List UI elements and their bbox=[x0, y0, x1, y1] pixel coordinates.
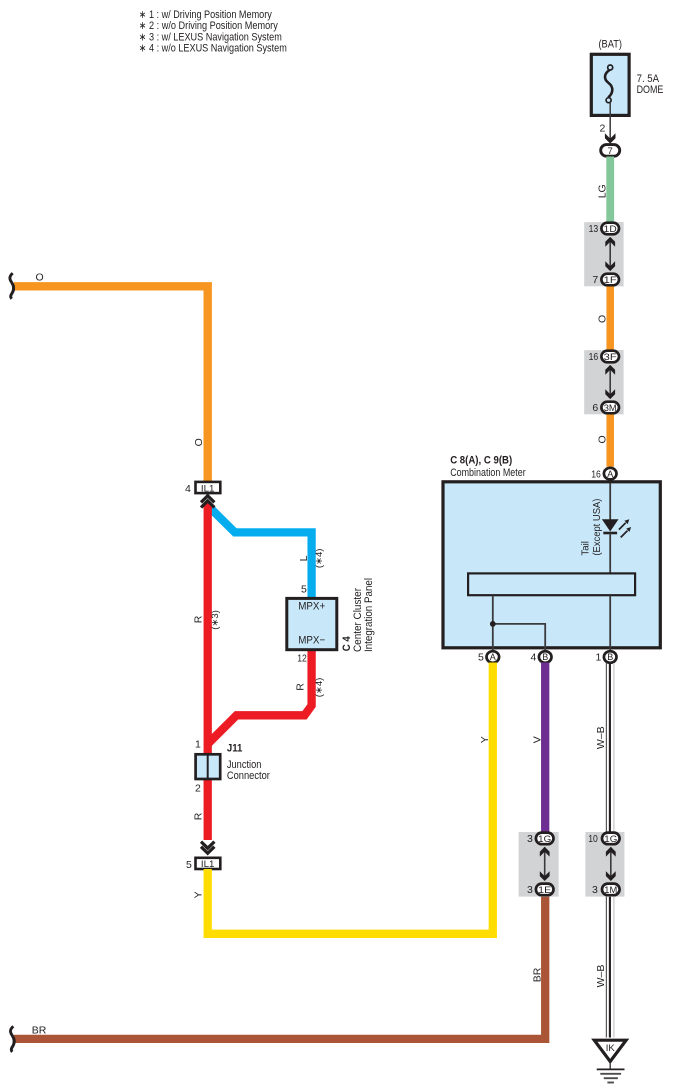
label W-B (upper) bbox=[595, 726, 607, 749]
label O bbox=[36, 271, 44, 283]
svg-text:(∗3): (∗3) bbox=[210, 610, 221, 630]
svg-text:(Except USA): (Except USA) bbox=[591, 499, 603, 556]
svg-text:13: 13 bbox=[589, 223, 599, 235]
svg-text:7: 7 bbox=[592, 274, 598, 286]
internal block bbox=[468, 573, 635, 595]
wire V bbox=[541, 663, 549, 834]
svg-text:6: 6 bbox=[592, 402, 598, 414]
wire BR bbox=[14, 897, 545, 1039]
label R bbox=[192, 615, 204, 623]
pin 3 connector 1E bbox=[527, 884, 554, 896]
internal wire right to pin 1 bbox=[609, 595, 611, 650]
svg-text:5: 5 bbox=[478, 652, 484, 664]
svg-text:Connector: Connector bbox=[227, 770, 270, 782]
svg-text:Tail: Tail bbox=[579, 541, 591, 556]
svg-text:5: 5 bbox=[186, 859, 192, 871]
label O vertical bbox=[193, 438, 205, 446]
break squiggle bottom bbox=[10, 1026, 14, 1052]
svg-text:1: 1 bbox=[596, 652, 602, 664]
svg-text:1F: 1F bbox=[604, 275, 617, 286]
svg-text:W–B: W–B bbox=[595, 726, 607, 749]
label Y (left) bbox=[192, 891, 204, 898]
svg-text:W–B: W–B bbox=[595, 965, 607, 988]
label Y (right) bbox=[479, 736, 491, 743]
svg-text:7: 7 bbox=[608, 146, 613, 157]
pin 16 connector 3F bbox=[589, 351, 619, 363]
svg-text:1E: 1E bbox=[538, 885, 551, 896]
center cluster integration panel C4 bbox=[287, 598, 337, 649]
label O bbox=[596, 435, 608, 443]
svg-text:BR: BR bbox=[32, 1024, 47, 1036]
svg-text:3M: 3M bbox=[604, 403, 617, 414]
pin 3 connector 1M bbox=[592, 884, 620, 896]
svg-text:O: O bbox=[193, 438, 205, 446]
svg-text:Combination Meter: Combination Meter bbox=[450, 467, 526, 479]
svg-text:BR: BR bbox=[532, 967, 544, 982]
svg-text:3: 3 bbox=[527, 833, 533, 845]
label V bbox=[532, 736, 544, 743]
LED tail lamp (diode) bbox=[602, 519, 631, 537]
wire LED to block bbox=[609, 533, 611, 573]
svg-text:∗ 1 : w/ Driving Position Memo: ∗ 1 : w/ Driving Position Memory bbox=[139, 9, 272, 21]
wire arrow 1D/1F bbox=[605, 237, 615, 271]
label L bbox=[298, 555, 310, 561]
label R (MPX branch) bbox=[294, 683, 306, 691]
pin 16 connector A bbox=[591, 468, 616, 481]
wire arrow 3F/3M bbox=[605, 365, 615, 399]
label O bbox=[596, 315, 608, 323]
label R lower bbox=[192, 812, 204, 820]
pin 5 connector IL1 (lower) bbox=[186, 858, 220, 871]
internal wire left to pin 5 bbox=[492, 595, 494, 650]
svg-text:IL1: IL1 bbox=[201, 483, 215, 493]
label (*4) bbox=[314, 549, 325, 569]
svg-text:Y: Y bbox=[479, 736, 491, 743]
svg-text:LG: LG bbox=[596, 184, 608, 198]
svg-text:V: V bbox=[532, 736, 544, 743]
svg-text:1G: 1G bbox=[604, 834, 617, 845]
svg-text:1G: 1G bbox=[538, 834, 551, 845]
svg-text:A: A bbox=[490, 652, 496, 662]
svg-text:R: R bbox=[192, 615, 204, 623]
ground IK bbox=[594, 1040, 626, 1061]
svg-text:16: 16 bbox=[589, 351, 599, 363]
pin 12 (MPX-) bbox=[297, 653, 307, 665]
label J11 Junction Connector bbox=[227, 743, 270, 782]
wire R from MPX bbox=[208, 650, 312, 744]
wire O horizontal feed bbox=[14, 286, 208, 481]
svg-text:∗ 2 : w/o Driving Position Mem: ∗ 2 : w/o Driving Position Memory bbox=[139, 20, 278, 32]
pin 13 connector 1D bbox=[589, 223, 619, 235]
label (*3) bbox=[210, 610, 221, 630]
svg-text:(∗4): (∗4) bbox=[314, 549, 325, 569]
svg-text:C 8(A), C 9(B): C 8(A), C 9(B) bbox=[450, 454, 512, 466]
wire W-B lower bbox=[606, 897, 614, 1038]
svg-text:(∗4): (∗4) bbox=[314, 678, 325, 698]
junction connector J11 bbox=[196, 754, 221, 779]
wire W-B upper bbox=[606, 663, 614, 833]
wire arrow 1G/1E bbox=[540, 847, 550, 881]
pin 7 connector 1F bbox=[592, 274, 619, 286]
wire O bbox=[606, 287, 614, 351]
connector block 1D/1F bbox=[584, 222, 623, 286]
svg-text:3: 3 bbox=[527, 884, 533, 896]
junction dot bbox=[490, 621, 496, 627]
pin 4 connector IL1 bbox=[185, 482, 220, 495]
svg-text:4: 4 bbox=[531, 652, 537, 664]
svg-text:IK: IK bbox=[606, 1043, 616, 1054]
ground symbol bbox=[597, 1063, 625, 1083]
pin 4 connector B bbox=[531, 651, 552, 663]
arrow into connector 7 bbox=[605, 133, 616, 143]
connector block 3F/3M bbox=[584, 350, 623, 414]
svg-text:O: O bbox=[36, 271, 44, 283]
label LG bbox=[596, 184, 608, 198]
svg-text:2: 2 bbox=[599, 123, 605, 135]
svg-text:4: 4 bbox=[185, 483, 191, 495]
svg-text:∗ 4 : w/o LEXUS Navigation Sys: ∗ 4 : w/o LEXUS Navigation System bbox=[139, 43, 287, 55]
label BR (horizontal) bbox=[32, 1024, 47, 1036]
pin 1 connector B bbox=[596, 651, 617, 663]
svg-text:1D: 1D bbox=[604, 224, 617, 235]
svg-text:16: 16 bbox=[591, 469, 601, 481]
label BR (vertical) bbox=[532, 967, 544, 982]
svg-text:2: 2 bbox=[195, 783, 201, 795]
svg-text:MPX+: MPX+ bbox=[298, 600, 325, 612]
svg-text:IL1: IL1 bbox=[201, 859, 215, 869]
connector block 1G/1M bbox=[585, 832, 624, 897]
pin 5 connector A bbox=[478, 651, 499, 663]
wire LG bbox=[606, 157, 614, 223]
internal branch to pin 4 bbox=[493, 624, 545, 650]
svg-text:R: R bbox=[192, 812, 204, 820]
svg-text:3F: 3F bbox=[604, 352, 617, 363]
svg-text:O: O bbox=[596, 435, 608, 443]
svg-text:DOME: DOME bbox=[637, 84, 664, 96]
label C 4 bbox=[341, 635, 353, 651]
wire O bbox=[606, 415, 614, 467]
label Center Cluster Integration Panel bbox=[352, 578, 375, 652]
connector 7 bbox=[601, 145, 620, 157]
label Tail (Except USA) bbox=[579, 499, 603, 556]
pin 10 connector 1G bbox=[588, 833, 619, 845]
value label 7.5A DOME bbox=[637, 73, 664, 96]
pin 5 (MPX+) bbox=[301, 583, 307, 595]
svg-text:A: A bbox=[607, 469, 613, 479]
svg-text:3: 3 bbox=[592, 884, 598, 896]
label (*4) (MPX branch) bbox=[314, 678, 325, 698]
internal wire to LED bbox=[609, 483, 611, 520]
wire fuse output bbox=[609, 103, 611, 141]
svg-text:B: B bbox=[607, 652, 613, 662]
svg-text:Integration Panel: Integration Panel bbox=[363, 578, 375, 652]
wire R main bbox=[204, 503, 212, 841]
note legend bbox=[139, 9, 287, 55]
svg-text:12: 12 bbox=[297, 653, 307, 665]
svg-text:Y: Y bbox=[192, 891, 204, 898]
connector block 1G/1E bbox=[519, 832, 559, 897]
svg-text:10: 10 bbox=[588, 833, 598, 845]
node (BAT) bbox=[598, 38, 622, 50]
component label C 8(A), C 9(B) Combination Meter bbox=[450, 454, 526, 479]
pin 2 bbox=[599, 123, 605, 135]
arrow double chevron down bbox=[201, 842, 214, 854]
svg-text:(BAT): (BAT) bbox=[598, 38, 622, 50]
wire arrow 1G/1M bbox=[606, 847, 616, 881]
pin 3 connector 1G bbox=[527, 833, 554, 845]
svg-text:1M: 1M bbox=[604, 885, 617, 896]
pin 1 bbox=[195, 739, 201, 751]
svg-text:L: L bbox=[298, 555, 310, 561]
fuse 7.5A DOME bbox=[591, 54, 629, 115]
svg-text:MPX−: MPX− bbox=[298, 635, 325, 647]
label W-B (lower) bbox=[595, 965, 607, 988]
break squiggle bbox=[10, 273, 14, 299]
wire L bbox=[208, 506, 312, 599]
svg-text:5: 5 bbox=[301, 583, 307, 595]
combination meter box bbox=[443, 482, 660, 648]
pin 6 connector 3M bbox=[592, 402, 619, 414]
svg-text:1: 1 bbox=[195, 739, 201, 751]
arrow double chevron up bbox=[201, 496, 214, 508]
wire Y bbox=[208, 663, 493, 934]
svg-text:O: O bbox=[596, 315, 608, 323]
pin 2 bbox=[195, 783, 201, 795]
svg-text:∗ 3 : w/ LEXUS Navigation Syst: ∗ 3 : w/ LEXUS Navigation System bbox=[139, 31, 282, 43]
svg-text:B: B bbox=[542, 652, 548, 662]
svg-text:R: R bbox=[294, 683, 306, 691]
svg-text:J11: J11 bbox=[227, 743, 243, 755]
